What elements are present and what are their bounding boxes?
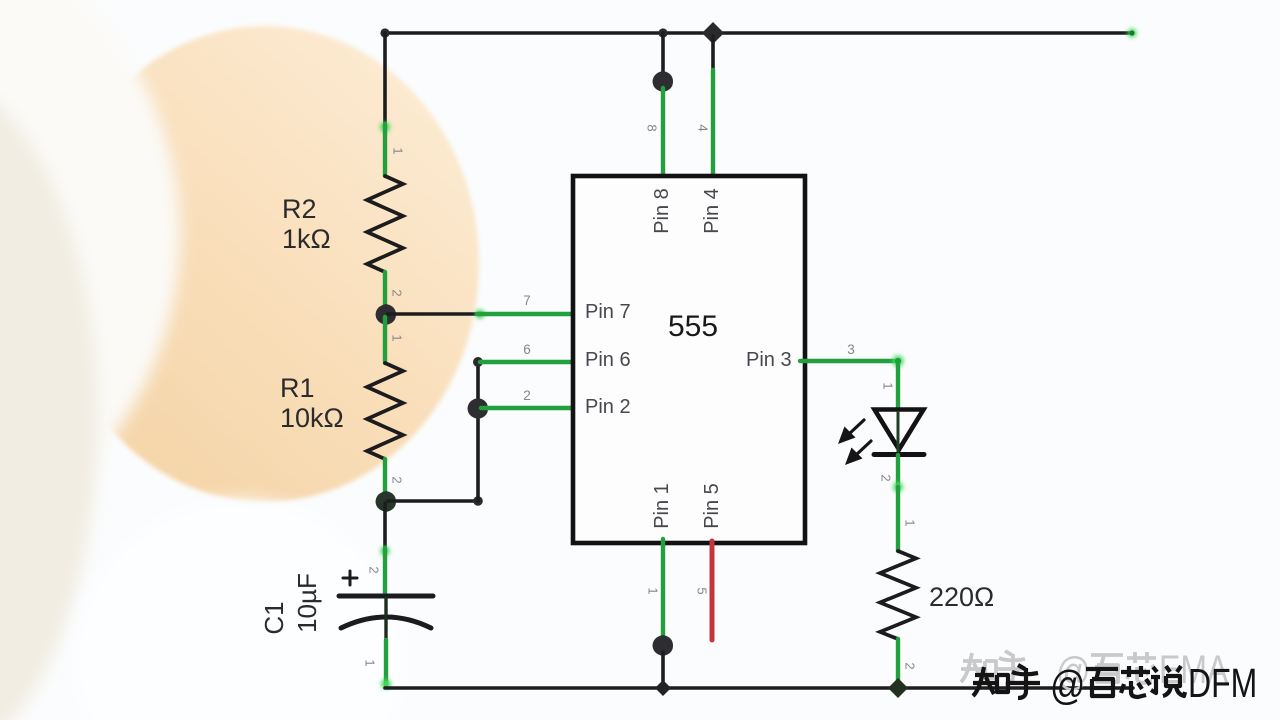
wire: top power rail	[385, 31, 1131, 35]
wire: green into IC pin 4	[711, 70, 715, 181]
decorative cream blob	[0, 75, 98, 720]
svg-text:8: 8	[645, 124, 660, 131]
watermark dark: zhihu at baixinshuo DFM	[973, 665, 1040, 698]
node: top rail right endpoint (green tip)	[1128, 29, 1137, 38]
capacitor C1 curved plate	[341, 617, 431, 628]
wire: vertical link up to pin 6 level	[476, 362, 480, 501]
resistor R1	[367, 363, 403, 459]
wire: green into IC pin 6	[480, 360, 578, 364]
node: junction dot at pin 2 tap	[468, 398, 489, 419]
svg-text:1: 1	[363, 659, 378, 666]
gray glyph xin	[1127, 652, 1156, 683]
svg-text:1: 1	[390, 334, 405, 341]
svg-text:6: 6	[523, 342, 531, 357]
wire: C1 bottom lead (green)	[384, 640, 388, 686]
node: junction dot on pin 8 wire	[653, 71, 674, 92]
gray glyph hu	[996, 651, 1027, 684]
svg-text:Pin 4: Pin 4	[701, 188, 723, 234]
svg-text:Pin 2: Pin 2	[585, 396, 631, 418]
dark glyph shuo	[1151, 666, 1185, 696]
wire: R2 pin 2 green lead	[383, 272, 387, 312]
svg-text:2: 2	[523, 388, 531, 403]
wire: rail down to R2 (black part)	[383, 33, 387, 124]
gray glyph bai	[1091, 655, 1123, 682]
wire: bottom ground rail	[385, 686, 1133, 690]
svg-text:4: 4	[696, 124, 711, 131]
node: junction R1/C1/pin6-2 link	[376, 491, 397, 512]
svg-text:7: 7	[523, 293, 531, 308]
node: junction R2/R1/pin7	[376, 304, 397, 325]
svg-text:1: 1	[903, 519, 918, 526]
svg-text:1: 1	[391, 147, 406, 154]
capacitor C1 top plate	[339, 594, 433, 599]
wire: green into IC pin 7	[477, 312, 578, 316]
decorative white blob bottom-left	[75, 500, 405, 720]
wire: C1 inner lead	[384, 598, 387, 645]
node: small junction above pin 8	[658, 28, 667, 37]
svg-text:2: 2	[903, 662, 918, 669]
svg-text:R1: R1	[280, 373, 315, 403]
wire: junction to pin 7 (black part)	[388, 312, 477, 316]
wire: R3 top green lead	[896, 487, 900, 551]
wire: junction to vertical link (horizontal black)	[388, 499, 478, 503]
wire: R3 bottom green lead	[896, 639, 900, 686]
dark glyph zhi	[973, 667, 1008, 696]
svg-text:1: 1	[881, 382, 896, 389]
svg-text:2: 2	[879, 474, 894, 481]
node: green glow at pin3 corner	[893, 356, 904, 367]
wire: green lead into R2 pin 1	[383, 124, 387, 176]
svg-text:Pin 8: Pin 8	[651, 188, 673, 234]
node: green glow between LED and R3	[893, 482, 903, 492]
wire: IC pin 3 green out	[800, 359, 899, 363]
svg-text:Pin 3: Pin 3	[746, 349, 792, 371]
svg-text:Pin 1: Pin 1	[651, 483, 673, 529]
LED D1	[838, 410, 924, 466]
LED light arrow 1	[849, 420, 864, 434]
wire: pin 4 drop from rail (black)	[711, 36, 715, 72]
wire: green into IC pin 8	[661, 88, 665, 181]
watermark light gray: zhihu at baixin EMA	[961, 651, 1027, 684]
node: small dot at link top	[473, 357, 483, 367]
LED cathode bar	[874, 452, 924, 457]
wire: R1 pin 2 green lead	[383, 459, 387, 499]
svg-text:1kΩ: 1kΩ	[282, 224, 331, 254]
resistor R3 220 ohm	[880, 551, 916, 639]
svg-text:2: 2	[367, 566, 382, 573]
svg-text:5: 5	[695, 587, 710, 594]
node: green glow on C1 top lead	[381, 547, 390, 556]
svg-text:2: 2	[390, 476, 405, 483]
LED light arrow 2	[856, 441, 871, 455]
node: small dot at link bottom corner	[473, 496, 483, 506]
node: diamond junction above pin 4	[702, 22, 724, 44]
LED inner lead	[897, 412, 900, 453]
svg-text:Pin 5: Pin 5	[701, 483, 723, 529]
node: green endpoint glow on R2 top lead	[380, 122, 390, 132]
node: diamond junction R3/rail	[888, 678, 908, 698]
gray glyph zhi	[961, 653, 996, 682]
wire: C1 top lead (black part)	[383, 503, 387, 548]
svg-text:10kΩ: 10kΩ	[280, 403, 344, 433]
wire: LED cathode green lead	[896, 455, 900, 488]
wire: IC pin 5 red stub (not connected)	[710, 541, 715, 640]
svg-text:DFM: DFM	[1188, 660, 1257, 706]
node: top-left corner dot	[380, 28, 389, 37]
svg-text:3: 3	[847, 342, 855, 357]
capacitor C1 plus sign	[343, 571, 357, 585]
wire: LED anode lead green	[896, 361, 900, 410]
wire: IC pin 1 green lead down	[661, 539, 665, 638]
svg-text:@: @	[1050, 663, 1085, 708]
svg-text:1: 1	[646, 587, 661, 594]
dark glyph xin	[1121, 666, 1150, 697]
dark glyph hu	[1009, 665, 1040, 698]
op-amp/timer IC U1 555 body	[573, 176, 805, 543]
node: green glow at C1 to rail joint	[381, 679, 391, 689]
svg-text:R2: R2	[282, 194, 317, 224]
wire: R1 pin 1 green lead	[383, 317, 387, 363]
LED triangle	[875, 410, 924, 450]
decorative white circle top-left	[0, 0, 180, 571]
node: green glow at pin7 wire transition	[476, 310, 485, 319]
node: diamond junction pin1/rail	[655, 680, 671, 696]
svg-text:10µF: 10µF	[292, 573, 322, 633]
svg-text:2: 2	[390, 289, 405, 296]
svg-text:220Ω: 220Ω	[929, 582, 994, 612]
svg-text:555: 555	[668, 310, 718, 343]
dark glyph bai	[1086, 669, 1118, 696]
svg-text:C1: C1	[259, 601, 289, 634]
resistor R2	[367, 176, 403, 272]
svg-text:Pin 7: Pin 7	[585, 301, 631, 323]
node: junction dot on pin 1 wire	[653, 635, 674, 656]
decorative peach blob	[51, 26, 479, 502]
wire: pin 8 drop from rail (black)	[661, 33, 665, 74]
wire: C1 top lead (green part)	[383, 548, 387, 594]
svg-text:Pin 6: Pin 6	[585, 349, 631, 371]
wire: green into IC pin 2	[481, 406, 578, 410]
wire: pin 1 black to rail	[661, 652, 665, 686]
